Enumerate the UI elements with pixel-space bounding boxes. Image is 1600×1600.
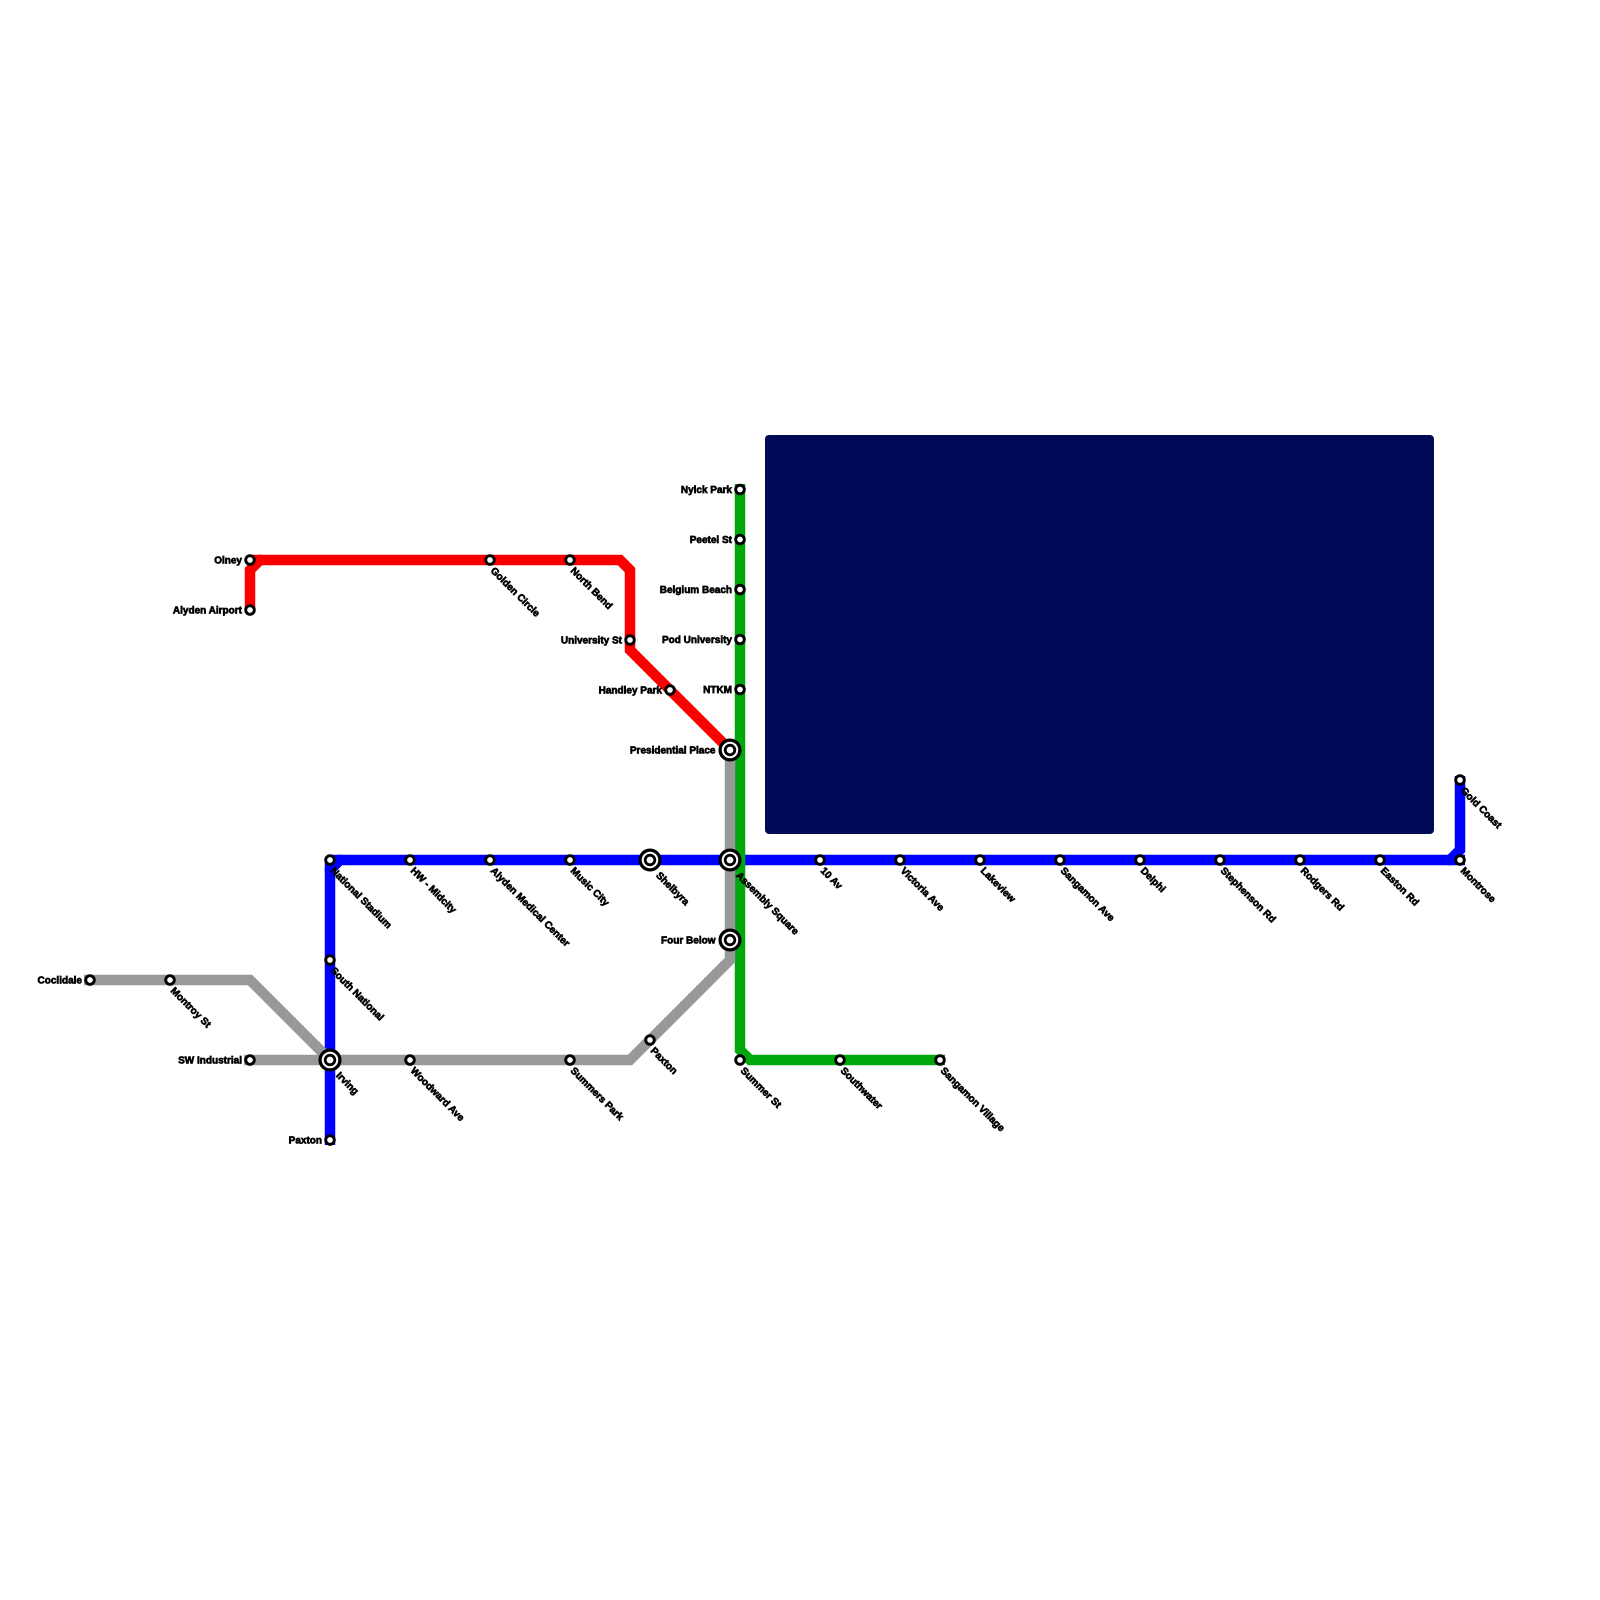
svg-text:Presidential Place: Presidential Place [630,746,716,757]
rotated labels [168,566,1504,1135]
svg-text:Coclidale: Coclidale [38,976,83,987]
red stub at Olney [250,555,262,566]
svg-text:Belgium Beach: Belgium Beach [660,585,732,596]
svg-text:Handley Park: Handley Park [599,686,663,697]
svg-text:Olney: Olney [214,556,242,567]
gray line branch B [244,748,730,1060]
svg-text:University St: University St [561,636,623,647]
svg-text:Four Below: Four Below [661,936,716,947]
blue line [330,776,1460,1145]
gray line branch A [84,980,330,1060]
svg-text:Pod University: Pod University [662,635,732,646]
svg-text:Nylck Park: Nylck Park [681,485,733,496]
horizontal labels (right-aligned, left of station) [38,485,733,1147]
svg-text:Peetel St: Peetel St [690,535,733,546]
blue stub at Montrose [1448,855,1465,866]
red line [250,560,730,750]
green line [740,484,945,1060]
svg-text:Alyden Airport: Alyden Airport [173,606,243,617]
navy landmass rectangle [765,435,1434,834]
interchange bullseyes [320,740,740,1070]
blue stubs at National Stadium [329,858,342,872]
svg-text:Paxton: Paxton [289,1136,322,1147]
svg-text:SW Industrial: SW Industrial [178,1056,242,1067]
svg-text:NTKM: NTKM [703,685,732,696]
small stations [86,485,1465,1144]
